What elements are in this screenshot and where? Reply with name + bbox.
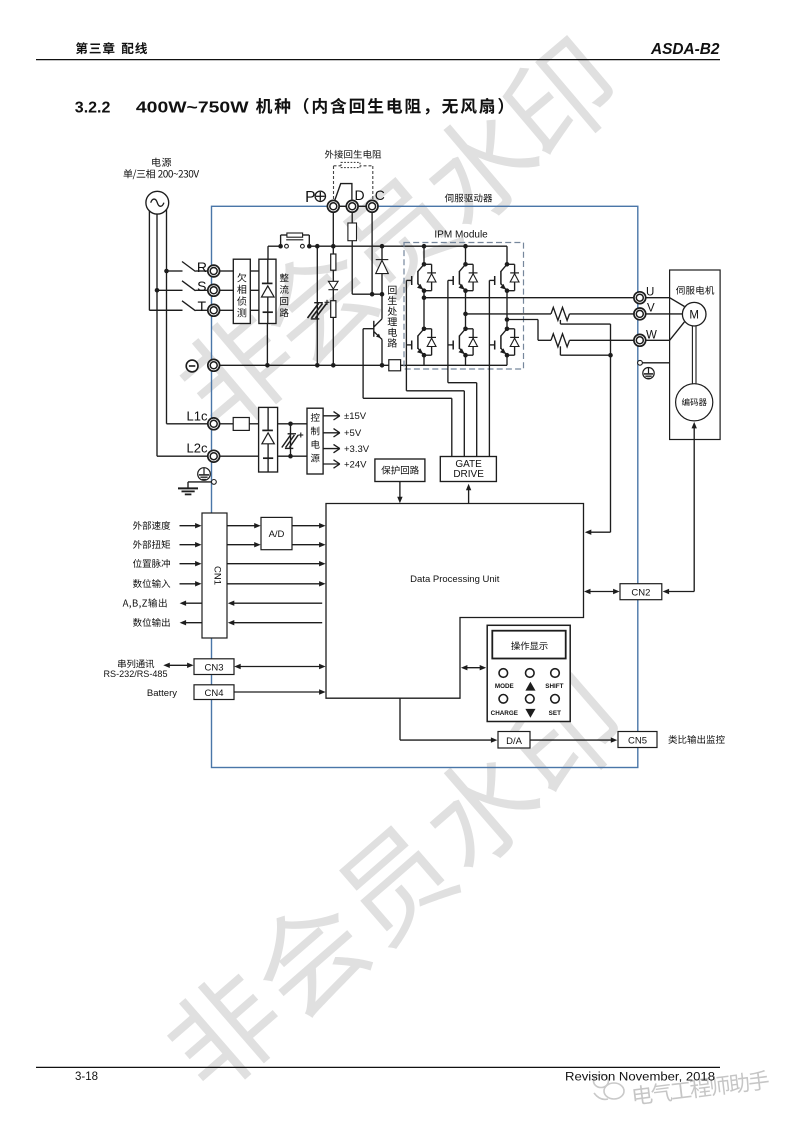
svg-text:M: M — [689, 309, 699, 321]
svg-text:CN3: CN3 — [204, 663, 223, 674]
svg-text:T: T — [197, 298, 206, 314]
svg-text:P: P — [305, 189, 315, 206]
svg-text:U: U — [646, 286, 654, 298]
svg-text:IPM Module: IPM Module — [434, 230, 488, 241]
svg-text:CHARGE: CHARGE — [491, 710, 518, 717]
svg-text:DRIVE: DRIVE — [453, 469, 484, 480]
svg-text:L2c: L2c — [187, 440, 208, 455]
svg-text:D/A: D/A — [506, 736, 523, 747]
svg-text:Data Processing Unit: Data Processing Unit — [410, 574, 500, 585]
svg-text:L1c: L1c — [187, 408, 208, 423]
svg-text:+24V: +24V — [344, 459, 367, 470]
svg-text:3-18: 3-18 — [75, 1071, 98, 1083]
svg-text:ASDA-B2: ASDA-B2 — [650, 41, 720, 58]
svg-text:400W~750W: 400W~750W — [136, 99, 250, 116]
svg-text:A/D: A/D — [269, 529, 285, 540]
svg-text:SET: SET — [549, 710, 561, 717]
svg-text:±15V: ±15V — [344, 411, 367, 422]
svg-text:CN1: CN1 — [212, 566, 223, 585]
svg-text:CN4: CN4 — [204, 688, 223, 699]
svg-text:Battery: Battery — [147, 688, 177, 699]
svg-text:S: S — [197, 278, 206, 294]
svg-text:RS-232/RS-485: RS-232/RS-485 — [104, 669, 168, 680]
svg-text:+5V: +5V — [344, 428, 362, 439]
svg-text:SHIFT: SHIFT — [545, 683, 563, 690]
svg-text:R: R — [197, 259, 207, 275]
svg-text:3.2.2: 3.2.2 — [75, 99, 111, 116]
svg-text:+3.3V: +3.3V — [344, 444, 370, 455]
svg-text:CN5: CN5 — [628, 736, 647, 747]
svg-text:MODE: MODE — [495, 683, 514, 690]
svg-text:C: C — [375, 187, 385, 203]
svg-text:CN2: CN2 — [631, 587, 650, 598]
svg-text:Revision November, 2018: Revision November, 2018 — [565, 1072, 715, 1084]
svg-text:V: V — [647, 303, 655, 315]
